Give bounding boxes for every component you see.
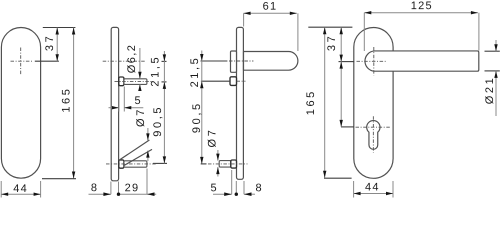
diagonal screw line 1 [119,140,150,160]
dim line 165 [324,27,326,178]
tick at axis for 21,5 [162,60,167,62]
lower screw dashed centerline [106,163,156,165]
reference line at handle axis [35,60,59,62]
svg-text:44: 44 [365,181,380,193]
svg-text:90,5: 90,5 [191,101,203,133]
upper screw dash through bar [237,80,246,82]
svg-text:8: 8 [91,182,98,194]
dim line 21,5 / 90,5 stack [163,51,165,163]
bottom extension line [42,178,76,180]
dim line 8 / 29 [89,193,111,195]
lower screw collar [119,160,124,168]
5 extension lines [118,87,120,112]
top extension line [43,27,76,29]
handle axis dashed centerline [103,60,146,62]
diagonal screw line 2 [124,149,152,165]
61 extension lines [243,13,245,26]
upper screw collar [230,77,237,86]
dim line 5 with outside arrows [109,107,119,109]
dim line 61 [244,12,297,14]
Ø7 arrows [217,150,219,161]
handle axis dashed centerline [229,60,253,62]
lower screw rod [124,161,147,167]
plate bar [237,27,244,179]
upper screw collar [119,77,124,86]
handle crosshair horizontal dashed [357,60,387,62]
crosshair vertical dashed [20,48,22,75]
svg-text:165: 165 [305,89,317,115]
svg-text:37: 37 [326,34,338,51]
5 / 8 extension lines [231,170,233,194]
dim line 125 [364,12,478,14]
Ø21 tick top [485,50,500,52]
plate bar [111,27,118,180]
plate outline (stadium) [1,28,40,179]
handle axis reference line [201,60,228,62]
Ø6,2 leader line [139,48,141,79]
upper screw reference line [201,80,230,82]
tick at upper screw [162,81,167,83]
cylinder crosshair horizontal dashed [356,126,391,128]
plate outline (stadium) [354,28,393,179]
handle bearing boss [231,51,237,72]
svg-text:Ø6,2: Ø6,2 [126,44,138,73]
svg-text:21,5: 21,5 [189,56,201,88]
bottom extension line [324,177,352,179]
tick at handle axis [339,61,355,63]
cylinder crosshair vertical dashed [372,116,374,153]
upper screw dashed centerline [115,81,152,83]
handle crosshair vertical dashed [373,47,375,76]
svg-text:125: 125 [411,0,433,12]
upper screw rod [124,79,147,85]
tick at cylinder axis [341,126,354,128]
44 extension lines [353,181,355,198]
Ø21 tick bottom [485,70,500,72]
svg-text:29: 29 [125,182,140,194]
svg-text:Ø7: Ø7 [135,107,147,127]
handle lever [244,52,298,71]
svg-text:8: 8 [256,182,263,194]
svg-text:165: 165 [61,87,73,113]
Ø21 dim line with outside arrows [495,40,497,51]
Ø7 arrows [147,128,149,140]
tick at lower screw [153,162,167,164]
dim line 165 [73,28,75,179]
svg-text:44: 44 [13,183,28,195]
svg-text:Ø7: Ø7 [207,128,219,148]
dim line axis-cylinder (unlabeled) [340,62,342,127]
svg-text:61: 61 [263,1,278,13]
lower screw reference tick [201,163,207,165]
euro cylinder keyhole [367,121,380,150]
lower screw dashed centerline [208,163,248,165]
dim line 37 [340,27,342,61]
svg-text:37: 37 [44,34,56,51]
dim line 44 [354,193,393,195]
8 / 29 extension lines [110,182,112,195]
crosshair horizontal dashed [11,60,34,62]
dim line 37 [56,28,58,62]
dim line 21,5 / 90,5 stack [201,51,203,164]
svg-text:5: 5 [135,95,142,107]
svg-text:90,5: 90,5 [152,105,164,137]
handle lever bar [365,51,479,71]
top extension line [308,26,352,28]
svg-text:21,5: 21,5 [150,55,162,87]
125 extension lines [363,13,365,51]
dim line 5 / 8 [213,193,232,195]
svg-text:5: 5 [211,182,218,194]
lower screw rod [219,161,231,168]
44 extension lines [0,181,2,198]
lower screw collar [231,160,237,168]
svg-text:Ø21: Ø21 [484,76,496,105]
dim line 44 [1,193,40,195]
